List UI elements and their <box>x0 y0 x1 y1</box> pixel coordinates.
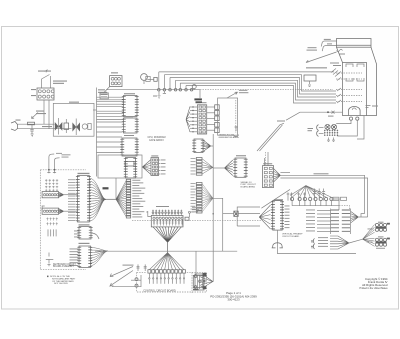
wire fan to switches <box>167 242 169 252</box>
label reset circuit <box>42 126 52 127</box>
wire feed to fan tree <box>290 186 306 196</box>
bridge rectifier cluster (X caps) <box>325 124 330 129</box>
capacitor C11 <box>144 264 147 271</box>
cap T mark in timing box <box>234 126 239 137</box>
IC U11 (keyboard encoder) <box>78 173 90 174</box>
wire video box to node <box>115 178 117 199</box>
capacitor C9 <box>322 189 325 201</box>
stub wires J8 up <box>195 251 197 275</box>
wires into T3 primary <box>317 210 331 212</box>
IC U12 (row driver) <box>79 224 90 225</box>
terminal E1 <box>349 117 352 120</box>
wire rail to transformer <box>331 199 339 210</box>
wedge harness U6 to serial <box>203 140 211 152</box>
speaker LS1 <box>141 74 148 81</box>
label RF out <box>366 106 371 108</box>
wire bus branches to gate array <box>97 126 123 128</box>
wire audio in 1 <box>237 207 260 220</box>
capacitor C6 bypass <box>163 91 166 93</box>
RF modulator funnel sides <box>337 47 343 62</box>
RF modulator case top <box>337 39 372 48</box>
wire modulator supply 2 <box>322 46 336 52</box>
label below DIN <box>376 247 385 250</box>
driver Q1 <box>154 77 157 81</box>
bus risers and horizontal power bus <box>158 72 160 89</box>
label voltage regulator <box>98 89 105 90</box>
wire keyboard power line 1 <box>280 175 364 213</box>
connector J5 (serial) <box>263 163 272 164</box>
junction dots keyboard supply <box>48 169 50 171</box>
wire harness split <box>349 239 363 243</box>
wire TV lead diagonal <box>306 52 337 63</box>
wire video line into modulator <box>300 111 342 113</box>
vertical bus wire A <box>212 134 214 282</box>
wire AC neutral <box>18 128 72 130</box>
harness to upper DIN <box>363 225 375 240</box>
transformer T1 (winding symbol) <box>55 122 59 131</box>
IC U13 (horizontal driver) <box>79 243 90 244</box>
pullup box right of DIP <box>185 217 189 220</box>
wire keyboard power line 2 <box>280 178 367 217</box>
diagonal taps into modulator <box>331 69 340 77</box>
connector J1 (power input) <box>37 88 54 100</box>
wedge harness J6 to video <box>142 160 151 175</box>
harness to lower DIN <box>363 239 375 247</box>
junction nodes on rail <box>158 88 161 91</box>
wire +5V vertical bus <box>96 88 98 177</box>
switch bank S2-S11 <box>148 270 151 273</box>
IC U2 (ROM) <box>124 116 133 117</box>
svg-text:All Rights Reserved: All Rights Reserved <box>362 283 388 287</box>
wedge T3 secondary <box>351 212 359 223</box>
wire modulator supply 1 <box>321 41 336 47</box>
IC U14 (serial io) <box>236 155 246 156</box>
shield pins bracket 2 <box>357 64 364 81</box>
labels U13 nets <box>70 248 79 251</box>
label row above DIP <box>156 206 169 207</box>
wedge harness into U14 <box>225 160 233 176</box>
ground keyboard common <box>46 253 54 266</box>
wire U15 ground run <box>277 230 356 253</box>
connector J8 (cassette DIN) <box>193 275 203 287</box>
wedge harness J5 out <box>274 169 281 183</box>
wire main +9V rail <box>106 89 200 91</box>
IC U15 (sound generator) <box>274 199 283 200</box>
capacitor C2 (filter) <box>82 124 87 129</box>
label clock net <box>239 90 248 91</box>
capacitor C8 <box>318 189 321 201</box>
resistor DIP array RN2 <box>151 216 183 227</box>
labels U15 right pins <box>285 205 290 208</box>
wire AC hot <box>18 123 55 125</box>
svg-text:Printed in the United States: Printed in the United States <box>360 287 389 290</box>
diode ticks row <box>46 218 58 226</box>
wires control board <box>131 279 141 281</box>
pullup T marks <box>47 170 56 174</box>
IC U5 (video gen) <box>126 158 136 179</box>
capacitor C1 (line) <box>30 124 33 134</box>
capacitor C5 bypass <box>158 91 161 98</box>
coil hump at modulator bottom <box>349 107 361 116</box>
wedge harness into U15 <box>259 205 270 229</box>
harness U13 to control bus <box>91 248 109 266</box>
label antenna lead <box>339 54 345 55</box>
harness DIP bottom fan <box>153 227 181 242</box>
wire audio in 3 <box>223 213 234 215</box>
connector row CN1 (keyboard) <box>42 192 59 198</box>
label power transformer <box>69 102 79 103</box>
terminal strip TS2 boxes <box>196 183 202 185</box>
coil L2 hump <box>272 243 283 248</box>
stubs J5 top <box>264 158 266 166</box>
label P2 <box>103 187 109 189</box>
wedge harness J8 <box>203 275 213 288</box>
RF modulator body <box>343 63 367 116</box>
capacitor C7 <box>313 189 316 201</box>
label T3 designators <box>333 197 339 200</box>
harness switch fan <box>149 253 184 270</box>
connector J11 (DIN lower) <box>375 238 378 241</box>
diode terminals row <box>291 197 294 200</box>
harness output fan to DIN <box>330 236 349 249</box>
stub wires below diodes <box>47 229 49 236</box>
svg-text:NOT SHOWN: NOT SHOWN <box>54 283 68 285</box>
wire transformer secondary to +5V bus <box>93 109 97 111</box>
svg-text:300-4123: 300-4123 <box>227 298 240 302</box>
connector J10 (DIN upper) <box>375 223 378 226</box>
wedge harness J4 <box>202 159 213 175</box>
svg-text:BOARD ASSEMBLY: BOARD ASSEMBLY <box>53 265 74 268</box>
wire serial line 1 <box>280 172 290 174</box>
supply wire +5V to keyboard <box>55 158 60 170</box>
wire bundle node <box>106 198 116 200</box>
wire diagonal feed <box>261 189 290 208</box>
power distribution fan <box>292 186 331 198</box>
resistor matrix grid <box>45 179 58 191</box>
wire audio in 4 <box>237 220 260 226</box>
flyback transformer T3 windings <box>331 210 350 231</box>
connector right of control board <box>195 274 204 290</box>
dashed divider cassette <box>191 272 193 293</box>
power supply box outline <box>53 103 94 136</box>
label speaker +9V net <box>306 67 327 68</box>
arrow pointer A1 <box>110 267 133 277</box>
IC U6 (latch) <box>194 139 203 153</box>
wedge harness into P3 <box>186 107 190 133</box>
terminal strip fanout <box>116 180 126 217</box>
wire U12 out <box>91 233 99 239</box>
switch S1 (power) <box>41 79 43 88</box>
ferrite bead FB1 <box>234 211 238 216</box>
resistor R3 on rail <box>192 85 196 89</box>
video box outline <box>98 155 142 178</box>
connector P1 (AC line plug) <box>11 122 18 131</box>
IC U1 (CPU) <box>124 93 135 94</box>
svg-text:BOARD AREA: BOARD AREA <box>241 185 256 188</box>
supply wire -12V to keyboard <box>49 154 54 170</box>
control board dashed border <box>137 272 207 292</box>
arrow note line filter <box>32 113 39 119</box>
label J2 note <box>104 87 110 93</box>
harness U11 right bundle <box>89 178 106 221</box>
note asterisk text <box>47 276 49 278</box>
input cell column <box>215 105 220 110</box>
svg-text:CIRCUIT BOARD: CIRCUIT BOARD <box>282 235 300 238</box>
collector rail <box>292 205 339 207</box>
connector J6 (expansion) <box>151 155 158 156</box>
wires T3 to verticals <box>358 214 367 217</box>
wire audio in 2 <box>238 213 260 215</box>
connector row CN2 (keyboard) <box>42 206 45 211</box>
diode grid under bridge <box>324 130 338 136</box>
terminal strip boxes <box>126 179 130 181</box>
wire sound line diagonals <box>257 112 300 151</box>
wire U6 to serial bus <box>211 145 214 147</box>
wire TS2 to control bus <box>213 198 223 251</box>
wire E1 feed <box>336 120 351 123</box>
timing pulse generator box <box>218 98 238 135</box>
wedge CN2 <box>59 209 64 214</box>
IC U3 (RAM) <box>122 138 137 156</box>
harness TS2 fan <box>202 184 213 213</box>
ground under bridge <box>327 138 335 142</box>
labels output harness <box>318 236 328 239</box>
terminal E2 <box>356 117 359 120</box>
arrow pointer A2 <box>110 271 133 287</box>
dashed select line <box>132 219 262 221</box>
connector J2 (video out) <box>111 72 118 73</box>
indicator LEDs <box>135 278 138 281</box>
labels U11 left nets <box>68 178 76 181</box>
relay K1 box <box>304 75 316 81</box>
wedge CN1 <box>59 192 64 197</box>
svg-text:CONTROL CIRCUIT BOARD: CONTROL CIRCUIT BOARD <box>143 290 176 293</box>
bypass caps above sound IC <box>287 192 306 200</box>
wire bus branch stubs to logic <box>97 96 124 98</box>
label J3 (dark) <box>199 90 201 98</box>
connector strip J4 <box>196 158 202 160</box>
header pins above resistor DIP <box>152 210 182 216</box>
connector receptacles bracket <box>317 125 319 137</box>
wire J1 to transformer <box>43 100 45 124</box>
arrow to clock net <box>227 92 238 98</box>
label arrows <box>123 265 134 266</box>
wire E2 feed <box>337 120 357 136</box>
bracket tap symbols <box>313 238 314 249</box>
keyboard board dashed border <box>40 170 86 270</box>
wire modulator ground return <box>357 116 364 140</box>
svg-text:GATE ARRAY: GATE ARRAY <box>149 139 164 142</box>
wires into P3 left <box>190 106 197 108</box>
capacitor C10 <box>137 264 140 271</box>
ground (AC common) <box>31 134 34 137</box>
input filter marks <box>337 72 341 104</box>
fuse F1 <box>28 122 35 125</box>
dashed signal lines into modulator <box>336 72 362 74</box>
label power line <box>314 173 329 174</box>
connector grid P3 <box>196 102 201 103</box>
label from power supply <box>308 47 317 48</box>
label TO POWER SUPPLY <box>53 81 67 82</box>
transformer T2 (winding symbol) <box>72 122 76 131</box>
wire control bus horizontal <box>95 250 237 252</box>
shield pins bracket 1 <box>346 64 353 81</box>
wires P3 to timing input <box>207 106 215 108</box>
IC U4 small logic <box>125 162 134 167</box>
hook wire left of DIP <box>146 211 151 217</box>
rectifier D1 <box>64 123 69 129</box>
